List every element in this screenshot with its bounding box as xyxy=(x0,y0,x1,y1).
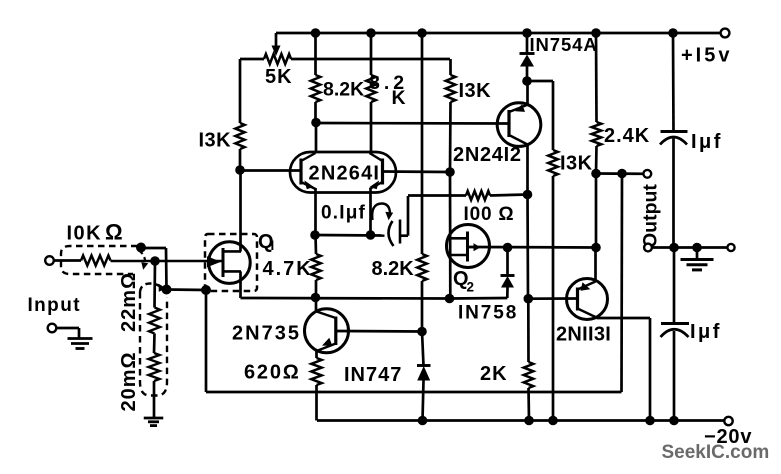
svg-text:4.7K: 4.7K xyxy=(263,258,313,280)
svg-text:IN754A: IN754A xyxy=(530,34,598,55)
svg-text:I3K: I3K xyxy=(459,80,492,102)
svg-text:2N24I2: 2N24I2 xyxy=(453,144,522,166)
svg-text:0.Iμf: 0.Iμf xyxy=(321,203,366,224)
svg-text:2: 2 xyxy=(467,280,475,295)
svg-text:Iμf: Iμf xyxy=(691,131,723,153)
svg-text:K: K xyxy=(392,87,406,109)
svg-text:22mΩ: 22mΩ xyxy=(118,272,140,332)
svg-text:Ω: Ω xyxy=(105,220,123,245)
svg-text:2N735: 2N735 xyxy=(232,323,301,345)
svg-text:2NII3I: 2NII3I xyxy=(556,324,611,346)
svg-text:8.2K: 8.2K xyxy=(372,258,415,280)
svg-text:Input: Input xyxy=(28,295,81,316)
svg-text:Iμf: Iμf xyxy=(690,321,722,343)
svg-text:5K: 5K xyxy=(265,66,293,88)
svg-text:I3K: I3K xyxy=(560,153,593,175)
svg-text:IN747: IN747 xyxy=(344,364,402,386)
svg-text:Output: Output xyxy=(640,184,662,248)
svg-text:8.2K: 8.2K xyxy=(323,79,364,101)
svg-text:I00 Ω: I00 Ω xyxy=(464,204,515,225)
svg-text:620Ω: 620Ω xyxy=(244,362,301,384)
svg-text:SeekIC.com: SeekIC.com xyxy=(662,442,770,463)
svg-text:2K: 2K xyxy=(480,363,508,385)
svg-text:I3K: I3K xyxy=(199,130,232,152)
svg-text:2.4K: 2.4K xyxy=(604,125,650,147)
svg-text:I: I xyxy=(271,238,275,253)
svg-text:I0K: I0K xyxy=(67,223,103,245)
svg-text:20mΩ: 20mΩ xyxy=(118,351,140,411)
svg-text:2N264I: 2N264I xyxy=(309,163,381,185)
svg-text:+I5v: +I5v xyxy=(681,45,732,67)
svg-text:IN758: IN758 xyxy=(458,303,518,324)
